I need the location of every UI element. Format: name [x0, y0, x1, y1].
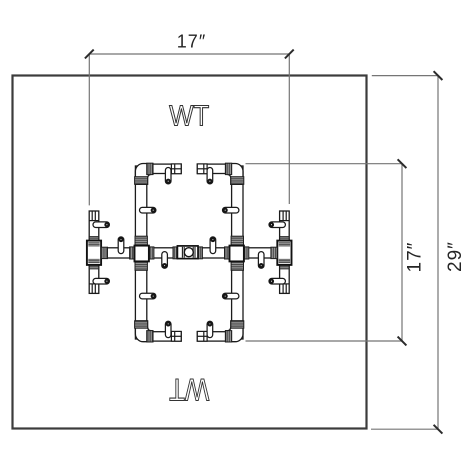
nozzle stub: top pipe left (down) [165, 168, 171, 184]
tee fitting left arm: body [87, 241, 101, 265]
svg-text:29″: 29″ [445, 241, 466, 272]
nozzle stub: left arm lower (right) [93, 278, 109, 284]
tee fitting right arm: inner hatch top [279, 242, 290, 246]
end fitting: bottom-right air mixer block [197, 331, 207, 341]
nozzle stub: right vertical pipe lower (left) [223, 293, 239, 299]
pipe: right vertical pipe [232, 166, 243, 339]
nozzle stub: center pipe mid-left (down) [162, 252, 168, 269]
elbow bottom-right [226, 321, 244, 342]
gas inlet fitting: right socket band [198, 247, 202, 259]
nozzle stub: center pipe mid-right (up) [210, 237, 216, 254]
tee fitting left arm: bar band above [89, 237, 98, 241]
dimension: right 17 inch dimension line [401, 164, 403, 341]
dimension: right 17 inch extension line bottom [246, 340, 403, 342]
cross fitting left: left socket band [130, 247, 135, 259]
coupling band: top-right elbow horizontal socket [226, 163, 232, 174]
nozzle stub: center pipe far-left (up) [118, 237, 124, 254]
dimension: top 17 inch right tick [285, 50, 294, 59]
tee fitting right arm: pipe socket band [271, 247, 277, 258]
coupling band: bottom-left elbow vertical socket [135, 321, 148, 328]
tee fitting right arm: inner hatch bottom [279, 259, 290, 263]
end fitting: top-right air mixer block [197, 164, 207, 174]
tee fitting left arm: bar band below [89, 265, 98, 269]
dimension: top 17 inch dimension line [89, 53, 289, 55]
coupling band: top-left elbow horizontal socket [147, 163, 153, 174]
plate (29 inch square burner pan top) [13, 76, 367, 429]
coupling band: bottom-right elbow vertical socket [231, 321, 244, 328]
nozzle stub: right arm upper (left) [269, 222, 285, 228]
pipe: left outer arm bar [89, 211, 99, 293]
pipe: right outer arm bar [280, 211, 290, 293]
dimension: 29 inch dimension line [437, 76, 439, 430]
dimension: top 17 inch extension line right [288, 54, 290, 204]
svg-text:WT: WT [169, 101, 209, 133]
tee fitting right arm: body [277, 241, 291, 265]
tee fitting left arm: inner hatch top [88, 242, 99, 246]
elbow top-right [226, 164, 244, 185]
cross fitting left: bottom socket band [135, 261, 147, 270]
pipe: top left horizontal pipe [148, 164, 181, 173]
dimension: 29 inch top tick [434, 71, 443, 80]
cross fitting right: body [230, 246, 244, 262]
tee fitting right arm: bar band below [280, 265, 289, 269]
cross fitting left: top socket band [135, 236, 147, 245]
dimension: 29 inch extension line top [372, 75, 438, 77]
tee fitting left arm: inner hatch bottom [88, 259, 99, 263]
nozzle stub: center pipe far-right (down) [258, 252, 264, 269]
elbow top-left [135, 163, 153, 184]
arm cap: left arm bottom cap lines [89, 284, 99, 294]
arm cap: left arm top cap lines [89, 211, 99, 221]
cross fitting right: bottom socket band [231, 261, 243, 270]
tee fitting right arm: bar band above [280, 237, 289, 241]
svg-text:17″: 17″ [405, 242, 426, 273]
pipe: bottom right horizontal pipe [197, 332, 230, 341]
dimension: 29 inch bottom tick [434, 425, 443, 434]
coupling band: bottom-right elbow horizontal socket [226, 331, 232, 342]
dimension: top 17 inch left tick [85, 50, 94, 59]
nozzle stub: right arm lower (left) [269, 278, 285, 284]
dimension: right 17 inch bottom tick [398, 337, 407, 346]
coupling band: bottom-left elbow horizontal socket [147, 331, 153, 342]
nozzle stub: bottom pipe right (up) [207, 321, 213, 337]
svg-text:WT: WT [169, 372, 209, 408]
gas inlet fitting: inner collar lines [182, 247, 195, 258]
dimension: 29 inch extension line bottom [371, 428, 438, 430]
end fitting: bottom-left air mixer block [171, 331, 181, 341]
pipe: left vertical pipe [135, 166, 146, 339]
nozzle stub: left vertical pipe upper (right) [140, 207, 156, 213]
arm cap: right arm top cap lines [280, 211, 290, 221]
cross fitting left: body [135, 246, 149, 262]
tee fitting left arm: pipe socket band [101, 247, 107, 258]
nozzle stub: bottom pipe left (up) [165, 321, 171, 337]
coupling band: top-right elbow vertical socket [231, 177, 244, 185]
svg-text:17″: 17″ [177, 32, 206, 52]
pipe: top right horizontal pipe [197, 164, 230, 173]
gas inlet fitting: body [177, 246, 198, 259]
end fitting: top-left air mixer block [171, 164, 181, 174]
arm cap: right arm bottom cap lines [280, 284, 290, 294]
nozzle stub: left arm upper (right) [93, 222, 109, 228]
nozzle stub: top pipe right (down) [207, 168, 213, 184]
cross fitting right: right socket band [244, 247, 249, 259]
elbow bottom-left [135, 321, 153, 342]
dimension: top 17 inch extension line left [88, 54, 90, 205]
nozzle stub: left vertical pipe lower (right) [140, 293, 156, 299]
dimension: right 17 inch top tick [398, 159, 407, 168]
cross fitting right: left socket band [225, 247, 230, 259]
nozzle stub: right vertical pipe upper (left) [223, 207, 239, 213]
pipe: center horizontal supply pipe [101, 248, 279, 258]
coupling band: top-left elbow vertical socket [135, 177, 148, 185]
cross fitting left: right socket band [149, 247, 154, 259]
pipe: bottom left horizontal pipe [148, 332, 181, 341]
cross fitting right: top socket band [231, 236, 243, 245]
gas inlet fitting: left socket band [173, 247, 177, 259]
dimension: right 17 inch extension line top [246, 163, 403, 165]
gas inlet fitting: center orifice circle [184, 248, 193, 257]
